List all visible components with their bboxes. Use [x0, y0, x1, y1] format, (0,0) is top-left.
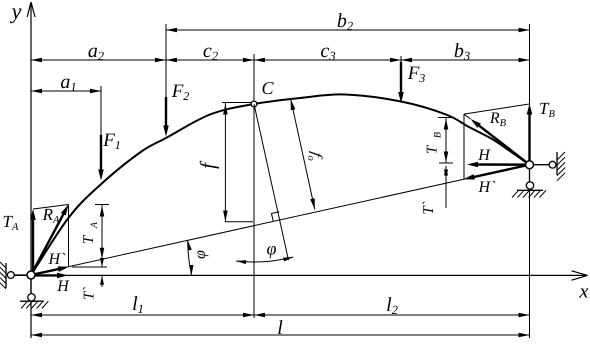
svg-text:H`: H` — [48, 251, 67, 268]
svg-text:H: H — [56, 278, 70, 295]
svg-text:H`: H` — [478, 179, 497, 196]
svg-text:φ: φ — [192, 250, 209, 259]
svg-text:A: A — [89, 221, 100, 229]
svg-text:l: l — [277, 317, 283, 339]
svg-text:C: C — [261, 78, 274, 98]
svg-text:T`: T` — [421, 201, 437, 214]
svg-text:T`: T` — [82, 287, 98, 300]
svg-text:H: H — [477, 147, 491, 164]
svg-text:B: B — [433, 132, 444, 138]
svg-text:φ: φ — [267, 239, 277, 259]
svg-text:x: x — [579, 281, 589, 303]
svg-text:y: y — [10, 0, 22, 24]
